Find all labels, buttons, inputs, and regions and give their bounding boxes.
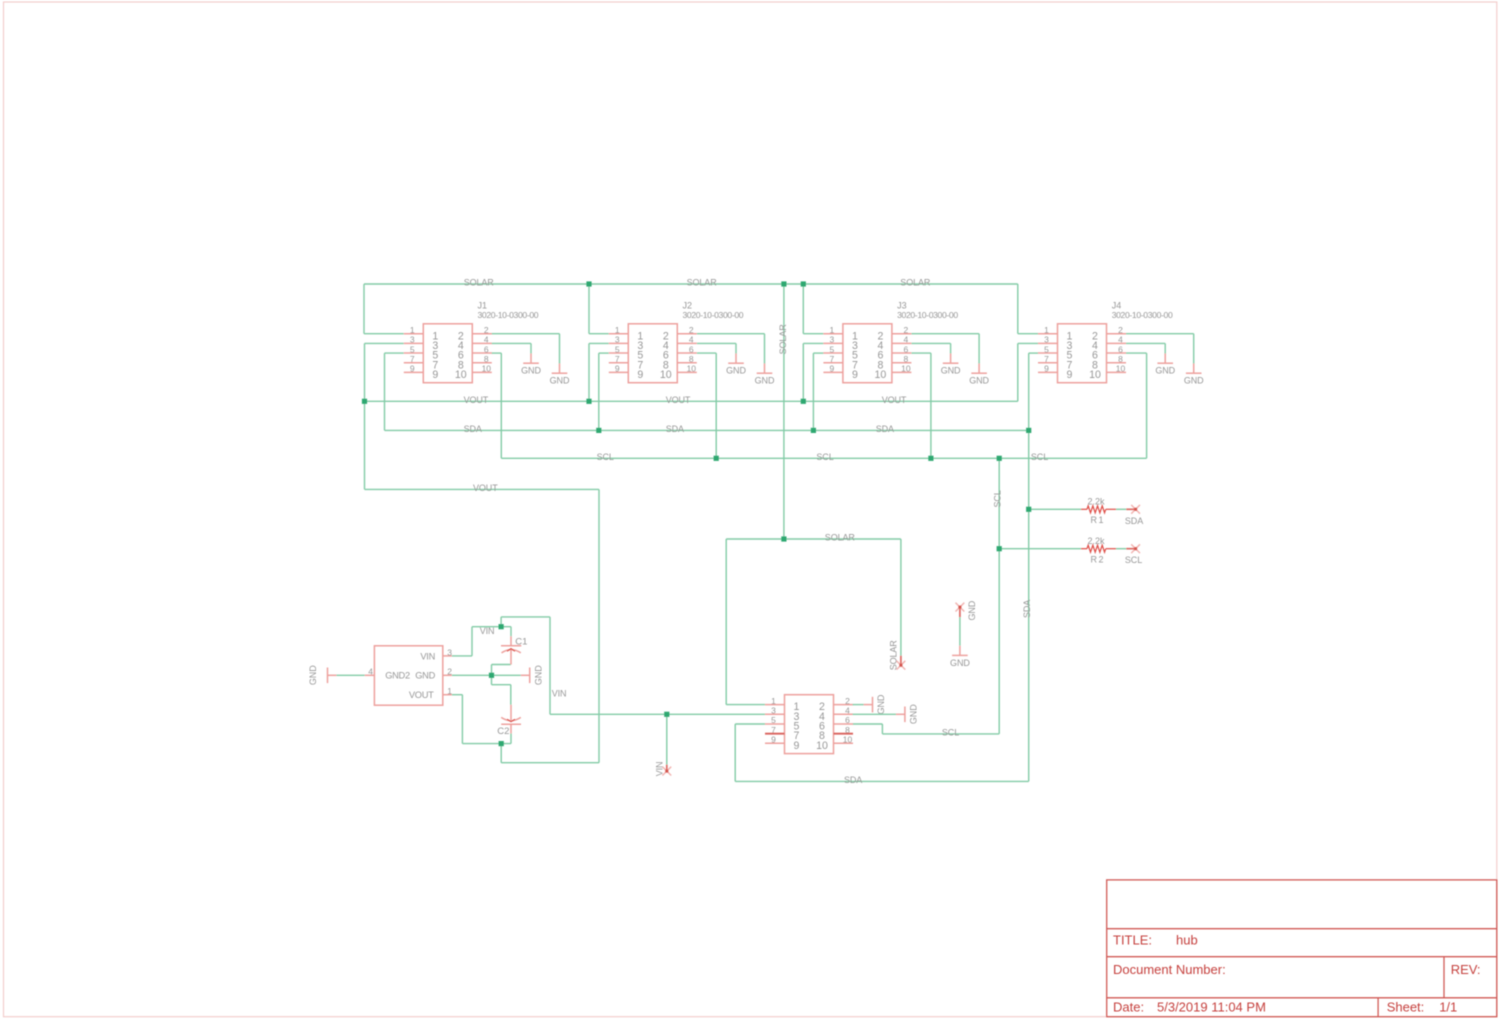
- svg-text:4: 4: [845, 705, 850, 715]
- svg-text:1: 1: [1044, 325, 1049, 335]
- ground symbol GND (J1 pin 2): [550, 364, 570, 386]
- wire J4 pin 2 to GND: [1126, 334, 1194, 364]
- svg-text:3: 3: [615, 335, 620, 345]
- J3 pin 6 (stub and pin number labels): [877, 344, 911, 361]
- wire J3 pin 5 to SDA bus: [813, 353, 823, 430]
- svg-text:9: 9: [830, 364, 835, 374]
- svg-text:GND: GND: [969, 376, 989, 386]
- resistor R2 2.2k: [1081, 536, 1136, 565]
- J2 pin 4 (stub and pin number labels): [663, 335, 697, 352]
- connector J2 3020-10-0300-00: [609, 300, 744, 382]
- ground symbol GND (J3 pin 2): [969, 364, 989, 386]
- svg-text:2: 2: [845, 696, 850, 706]
- wire J5 pin 4 to GND: [853, 713, 896, 715]
- J4 pin 9 (stub and pin number labels): [1038, 364, 1073, 381]
- J1 pin 5 (stub and pin number labels): [404, 344, 439, 361]
- wire regulator pin 1 (VOUT) down to C2 node: [452, 695, 511, 744]
- svg-text:5: 5: [615, 344, 620, 354]
- svg-text:VOUT: VOUT: [464, 395, 489, 405]
- wire SOLAR bus (top horizontal): [364, 283, 1018, 285]
- J4 body outline: [1058, 324, 1107, 383]
- svg-text:GND: GND: [941, 366, 961, 376]
- svg-text:GND: GND: [967, 600, 977, 620]
- svg-text:J1: J1: [478, 300, 488, 310]
- svg-text:3020-10-0300-00: 3020-10-0300-00: [683, 310, 744, 320]
- svg-text:9: 9: [794, 740, 800, 752]
- junction SOLAR/J3: [801, 281, 806, 286]
- svg-text:7: 7: [615, 354, 620, 364]
- J3 pin 8 (stub and pin number labels): [877, 354, 911, 371]
- svg-text:3020-10-0300-00: 3020-10-0300-00: [478, 310, 539, 320]
- J3 pin 3 (stub and pin number labels): [823, 335, 858, 352]
- svg-text:GND: GND: [415, 670, 435, 680]
- J1 pin 1 (stub and pin number labels): [404, 325, 439, 342]
- J5 body outline: [785, 695, 834, 754]
- svg-text:4: 4: [484, 335, 489, 345]
- capacitor C2: [497, 705, 521, 737]
- junction SCL/J2: [714, 456, 719, 461]
- wire R1 to SDA vertical: [1029, 508, 1081, 510]
- svg-text:5: 5: [830, 344, 835, 354]
- wire bottom SDA run: [735, 780, 1028, 782]
- wire regulator pin 4 to GND: [336, 674, 364, 676]
- wire SCL vertical down to lower SCL run: [998, 458, 1000, 734]
- U1 pin 4 GND2: [365, 667, 410, 681]
- J2 pin 6 (stub and pin number labels): [663, 344, 697, 361]
- ground symbol GND (J4 pin 2): [1184, 364, 1204, 386]
- wire J2 pin 6 to SCL bus: [697, 353, 716, 458]
- floating ground: X mark, stub and GND symbol: [959, 607, 961, 617]
- junction GND/C1-C2: [489, 673, 494, 678]
- svg-text:5/3/2019 11:04 PM: 5/3/2019 11:04 PM: [1157, 1000, 1266, 1015]
- J2 body outline: [628, 324, 677, 383]
- svg-text:3: 3: [830, 335, 835, 345]
- svg-text:4: 4: [368, 667, 373, 677]
- svg-text:10: 10: [875, 369, 887, 381]
- svg-text:SDA: SDA: [1022, 600, 1032, 618]
- J5 pin 5 (stub and pin number labels): [765, 715, 800, 732]
- ground symbol GND (J3 pin 4): [941, 354, 961, 376]
- ground symbol GND (J2 pin 2): [755, 364, 775, 386]
- svg-text:8: 8: [484, 354, 489, 364]
- J5 pin 8 (stub and pin number labels): [819, 725, 853, 742]
- svg-text:C1: C1: [515, 637, 527, 648]
- ground symbol GND (J4 pin 4): [1155, 354, 1175, 376]
- wire R1 right to X: [1116, 508, 1126, 510]
- svg-text:SOLAR: SOLAR: [825, 533, 856, 543]
- svg-text:SCL: SCL: [597, 452, 614, 462]
- wire J3 pin 4 to GND: [911, 343, 950, 353]
- wire J1 pin 3 to VOUT bus and down to lower VOUT run: [365, 343, 404, 489]
- svg-text:6: 6: [904, 344, 909, 354]
- J1 pin 4 (stub and pin number labels): [458, 335, 492, 352]
- svg-text:VOUT: VOUT: [473, 483, 498, 493]
- wire J3 pin 6 to SCL bus: [911, 353, 931, 458]
- svg-text:REV:: REV:: [1451, 962, 1481, 977]
- svg-text:1/1: 1/1: [1439, 1000, 1457, 1015]
- svg-text:SCL: SCL: [1031, 452, 1048, 462]
- junction VOUT/J3: [801, 399, 806, 404]
- svg-text:C2: C2: [497, 726, 509, 737]
- wire lower SCL run to J5 pin 6: [853, 724, 1000, 734]
- svg-text:J4: J4: [1112, 300, 1122, 310]
- wire J3 pin 3 to VOUT bus: [803, 343, 823, 401]
- svg-text:GND: GND: [755, 376, 775, 386]
- J1 pin 3 (stub and pin number labels): [404, 335, 439, 352]
- svg-text:7: 7: [1044, 354, 1049, 364]
- svg-text:VOUT: VOUT: [409, 690, 434, 700]
- svg-text:VIN: VIN: [552, 689, 567, 699]
- ground symbol GND (regulator pin 4): [308, 665, 336, 685]
- J5 pin 9 (stub and pin number labels): [765, 735, 800, 752]
- J5 pin 3 (stub and pin number labels): [765, 705, 800, 722]
- junction SCL/vertical: [997, 456, 1002, 461]
- wire SOLAR drop to J4 pin 1: [1018, 284, 1038, 334]
- J4 pin 7 (stub and pin number labels): [1038, 354, 1073, 371]
- svg-text:3: 3: [771, 705, 776, 715]
- J4 pin 3 (stub and pin number labels): [1038, 335, 1073, 352]
- wire J1 pin 2 to GND: [492, 334, 560, 364]
- svg-text:9: 9: [1067, 369, 1073, 381]
- J1 pin 2 (stub and pin number labels): [458, 325, 492, 342]
- junction VOUT/J1: [362, 399, 367, 404]
- wire J2 pin 2 to GND: [697, 334, 765, 364]
- junction SCL/J3: [928, 456, 933, 461]
- J1 pin 7 (stub and pin number labels): [404, 354, 439, 371]
- svg-text:SOLAR: SOLAR: [888, 640, 898, 671]
- svg-text:9: 9: [432, 369, 438, 381]
- connector J1 3020-10-0300-00: [404, 300, 539, 382]
- voltage regulator U1: [365, 646, 452, 705]
- J4 pin 4 (stub and pin number labels): [1092, 335, 1126, 352]
- svg-text:3: 3: [1044, 335, 1049, 345]
- svg-text:2: 2: [904, 325, 909, 335]
- svg-text:R2: R2: [1091, 555, 1106, 565]
- J5 pin 10 (stub and pin number labels): [816, 735, 853, 752]
- svg-text:2: 2: [1118, 325, 1123, 335]
- wire SCL bus (horizontal): [501, 457, 1146, 459]
- ground symbol GND (regulator pin 2): [521, 665, 544, 685]
- svg-text:TITLE:: TITLE:: [1113, 933, 1152, 948]
- U1 pin 3 VIN: [420, 647, 452, 661]
- svg-text:SCL: SCL: [942, 727, 959, 737]
- wire SOLAR long vertical to bottom loop: [783, 284, 785, 539]
- svg-text:GND: GND: [308, 665, 318, 685]
- J3 pin 10 (stub and pin number labels): [875, 364, 912, 381]
- U1 pin 2 GND: [415, 667, 452, 681]
- title block: [1107, 880, 1497, 1017]
- svg-text:4: 4: [689, 335, 694, 345]
- svg-text:10: 10: [901, 364, 911, 374]
- svg-text:10: 10: [843, 735, 853, 745]
- svg-text:2.2k: 2.2k: [1088, 536, 1106, 546]
- J3 pin 5 (stub and pin number labels): [823, 344, 858, 361]
- svg-text:Date:: Date:: [1113, 1000, 1144, 1015]
- svg-text:9: 9: [410, 364, 415, 374]
- svg-text:SDA: SDA: [464, 424, 482, 434]
- wire lower VOUT run across and down to C2 node: [365, 489, 600, 762]
- svg-text:VOUT: VOUT: [666, 395, 691, 405]
- junction SDA/J2: [596, 428, 601, 433]
- unconnected-net X mark floating GND top: [956, 603, 965, 612]
- wire VOUT bus (horizontal): [365, 400, 1018, 402]
- J3 pin 7 (stub and pin number labels): [823, 354, 858, 371]
- ground symbol GND (J2 pin 4): [726, 354, 746, 376]
- wire J2 pin 5 to SDA bus: [599, 353, 609, 430]
- svg-text:10: 10: [660, 369, 672, 381]
- J3 pin 1 (stub and pin number labels): [823, 325, 858, 342]
- svg-text:GND: GND: [876, 694, 886, 714]
- svg-text:9: 9: [852, 369, 858, 381]
- wire J4 pin 3 to VOUT bus: [1018, 343, 1038, 401]
- svg-text:GND: GND: [1155, 366, 1175, 376]
- wire SDA bus (horizontal): [385, 429, 1029, 431]
- svg-text:VIN: VIN: [420, 651, 435, 661]
- svg-text:VOUT: VOUT: [882, 395, 907, 405]
- J2 pin 9 (stub and pin number labels): [609, 364, 644, 381]
- J2 pin 3 (stub and pin number labels): [609, 335, 644, 352]
- svg-text:6: 6: [1118, 344, 1123, 354]
- J5 pin 8 stub (unconnected, bright): [834, 733, 854, 735]
- svg-text:4: 4: [1118, 335, 1123, 345]
- ground symbol GND (floating): [950, 646, 970, 668]
- J5 pin 4 (stub and pin number labels): [819, 705, 853, 722]
- junction SOLAR/long vertical: [781, 281, 786, 286]
- svg-text:SCL: SCL: [1125, 555, 1142, 565]
- J1 pin 8 (stub and pin number labels): [458, 354, 492, 371]
- svg-text:7: 7: [830, 354, 835, 364]
- svg-text:7: 7: [410, 354, 415, 364]
- J2 pin 10 (stub and pin number labels): [660, 364, 697, 381]
- svg-text:8: 8: [1118, 354, 1123, 364]
- svg-text:1: 1: [830, 325, 835, 335]
- svg-text:GND2: GND2: [385, 670, 410, 680]
- junction VOUT/C2: [499, 741, 504, 746]
- svg-text:3020-10-0300-00: 3020-10-0300-00: [897, 310, 958, 320]
- J4 pin 2 (stub and pin number labels): [1092, 325, 1126, 342]
- unconnected-net X mark R1 to SDA: [1131, 505, 1140, 514]
- ground symbol GND (J5 pin 4): [896, 704, 919, 724]
- svg-text:8: 8: [904, 354, 909, 364]
- svg-text:9: 9: [637, 369, 643, 381]
- svg-text:10: 10: [687, 364, 697, 374]
- svg-text:SOLAR: SOLAR: [900, 278, 931, 288]
- svg-text:J3: J3: [897, 300, 907, 310]
- wire J2 pin 3 to VOUT bus: [589, 343, 609, 401]
- svg-text:SDA: SDA: [844, 775, 862, 785]
- svg-text:5: 5: [410, 344, 415, 354]
- J5 pin 7 (stub and pin number labels): [765, 725, 800, 742]
- svg-text:10: 10: [1089, 369, 1101, 381]
- J1 pin 10 (stub and pin number labels): [455, 364, 492, 381]
- svg-text:hub: hub: [1176, 933, 1198, 948]
- J1 pin 6 (stub and pin number labels): [458, 344, 492, 361]
- svg-text:GND: GND: [550, 376, 570, 386]
- svg-text:2.2k: 2.2k: [1088, 496, 1106, 506]
- svg-text:1: 1: [771, 696, 776, 706]
- J4 pin 5 (stub and pin number labels): [1038, 344, 1073, 361]
- svg-text:6: 6: [845, 715, 850, 725]
- svg-text:VIN: VIN: [480, 626, 495, 636]
- svg-text:VIN: VIN: [654, 762, 664, 777]
- wire GND node down to C2 top: [492, 675, 511, 705]
- SOLAR end: red stub and X: [900, 656, 902, 666]
- svg-text:4: 4: [904, 335, 909, 345]
- capacitor C1: [501, 627, 527, 665]
- svg-text:Sheet:: Sheet:: [1387, 1000, 1425, 1015]
- U1 body outline: [374, 646, 442, 705]
- J3 pin 4 (stub and pin number labels): [877, 335, 911, 352]
- resistor R1 2.2k: [1081, 496, 1136, 525]
- wire SOLAR drop to J2 pin 1: [589, 284, 609, 334]
- svg-text:SDA: SDA: [666, 424, 684, 434]
- J5 pin 7 stub (unconnected, bright): [765, 733, 785, 735]
- svg-text:SOLAR: SOLAR: [687, 278, 718, 288]
- wire R2 to SCL vertical: [999, 548, 1081, 550]
- ground symbol GND (J5 pin 2): [864, 694, 887, 714]
- ground symbol GND (J1 pin 4): [521, 354, 541, 376]
- connector J5 (bottom, unlabeled): [765, 695, 853, 754]
- svg-text:GND: GND: [533, 665, 543, 685]
- svg-text:2: 2: [484, 325, 489, 335]
- J5 pin 2 (stub and pin number labels): [819, 696, 853, 713]
- J5 pin 1 (stub and pin number labels): [765, 696, 800, 713]
- wire C1 bottom to GND node: [492, 665, 511, 676]
- junction SDA/J3: [811, 428, 816, 433]
- wire J5 pin 2 to GND: [853, 704, 864, 706]
- svg-text:GND: GND: [521, 366, 541, 376]
- svg-text:10: 10: [816, 740, 828, 752]
- wire SOLAR drop to J3 pin 1: [803, 284, 823, 334]
- J2 pin 2 (stub and pin number labels): [663, 325, 697, 342]
- svg-text:3: 3: [410, 335, 415, 345]
- unconnected-net X mark VIN bottom: [662, 767, 671, 776]
- svg-text:10: 10: [482, 364, 492, 374]
- svg-text:5: 5: [1044, 344, 1049, 354]
- J3 pin 9 (stub and pin number labels): [823, 364, 858, 381]
- J3 body outline: [843, 324, 892, 383]
- svg-text:9: 9: [771, 735, 776, 745]
- wire SOLAR loop to J5 pin 1: [726, 539, 901, 705]
- J4 pin 10 (stub and pin number labels): [1089, 364, 1126, 381]
- svg-text:2: 2: [689, 325, 694, 335]
- wire J1 pin 4 to GND: [492, 343, 532, 353]
- svg-text:1: 1: [615, 325, 620, 335]
- connector J3 3020-10-0300-00: [823, 300, 958, 382]
- svg-text:6: 6: [484, 344, 489, 354]
- wire SOLAR stub down to X: [900, 539, 902, 656]
- wire J3 pin 2 to GND: [911, 334, 979, 364]
- wire J4 pin 6 to SCL bus: [1126, 353, 1147, 458]
- svg-text:9: 9: [1044, 364, 1049, 374]
- J3 pin 2 (stub and pin number labels): [877, 325, 911, 342]
- wire J1 pin 5 to SDA bus: [385, 353, 404, 430]
- wire J2 pin 4 to GND: [697, 343, 736, 353]
- svg-text:1: 1: [447, 686, 452, 696]
- svg-text:2: 2: [447, 667, 452, 677]
- svg-text:SCL: SCL: [816, 452, 833, 462]
- junction VOUT/J2: [586, 399, 591, 404]
- svg-text:R1: R1: [1091, 515, 1106, 525]
- svg-text:GND: GND: [1184, 376, 1204, 386]
- svg-text:3: 3: [447, 647, 452, 657]
- wire SOLAR drop to J1 pin 1: [364, 284, 404, 334]
- svg-text:SCL: SCL: [993, 490, 1003, 507]
- svg-text:6: 6: [689, 344, 694, 354]
- J2 pin 8 (stub and pin number labels): [663, 354, 697, 371]
- wire J5 pin 5 to bottom SDA run: [735, 724, 765, 781]
- svg-text:GND: GND: [726, 366, 746, 376]
- wire R2 right to X: [1116, 548, 1126, 550]
- junction SDA/J4: [1026, 428, 1031, 433]
- svg-text:SOLAR: SOLAR: [464, 278, 495, 288]
- svg-text:5: 5: [771, 715, 776, 725]
- wire J4 pin 4 to GND: [1126, 343, 1165, 353]
- svg-text:8: 8: [689, 354, 694, 364]
- unconnected-net X mark SOLAR bottom: [897, 661, 906, 670]
- svg-text:SDA: SDA: [876, 424, 894, 434]
- wire VIN stub down to X: [666, 714, 668, 771]
- J4 pin 1 (stub and pin number labels): [1038, 325, 1073, 342]
- wire J1 pin 6 to SCL bus: [492, 353, 502, 458]
- svg-text:Document Number:: Document Number:: [1113, 962, 1226, 977]
- svg-text:GND: GND: [909, 704, 919, 724]
- connector J4 3020-10-0300-00: [1038, 300, 1173, 382]
- unconnected-net X mark R2 to SCL: [1131, 544, 1140, 553]
- svg-text:SOLAR: SOLAR: [778, 324, 788, 355]
- U1 pin 1 VOUT: [409, 686, 452, 700]
- J1 pin 9 (stub and pin number labels): [404, 364, 439, 381]
- J1 body outline: [423, 324, 472, 383]
- svg-text:GND: GND: [950, 658, 970, 668]
- J2 pin 7 (stub and pin number labels): [609, 354, 644, 371]
- J4 pin 6 (stub and pin number labels): [1092, 344, 1126, 361]
- junction SDA/R1: [1026, 507, 1031, 512]
- wire regulator pin 2 GND node: [452, 674, 521, 676]
- svg-text:10: 10: [1116, 364, 1126, 374]
- junction VIN/J5 pin 3: [664, 712, 669, 717]
- wire C2 bottom to VOUT node: [510, 733, 512, 743]
- svg-text:J2: J2: [683, 300, 693, 310]
- wire floating GND stub: [959, 617, 961, 646]
- svg-text:9: 9: [615, 364, 620, 374]
- J2 pin 1 (stub and pin number labels): [609, 325, 644, 342]
- svg-text:3020-10-0300-00: 3020-10-0300-00: [1112, 310, 1173, 320]
- J4 pin 8 (stub and pin number labels): [1092, 354, 1126, 371]
- wire J4 pin 5 / SDA vertical down to bottom SDA run: [1029, 353, 1038, 781]
- svg-text:SDA: SDA: [1125, 516, 1143, 526]
- svg-text:1: 1: [410, 325, 415, 335]
- junction SOLAR/J2: [586, 281, 591, 286]
- svg-text:10: 10: [455, 369, 467, 381]
- J2 pin 5 (stub and pin number labels): [609, 344, 644, 361]
- J5 pin 6 (stub and pin number labels): [819, 715, 853, 732]
- junction SCL/R2: [997, 546, 1002, 551]
- junction VIN/C1: [499, 624, 504, 629]
- junction SOLAR loop: [781, 536, 786, 541]
- wire VIN net: regulator pin 3 up over to J5 pin 3: [452, 617, 765, 714]
